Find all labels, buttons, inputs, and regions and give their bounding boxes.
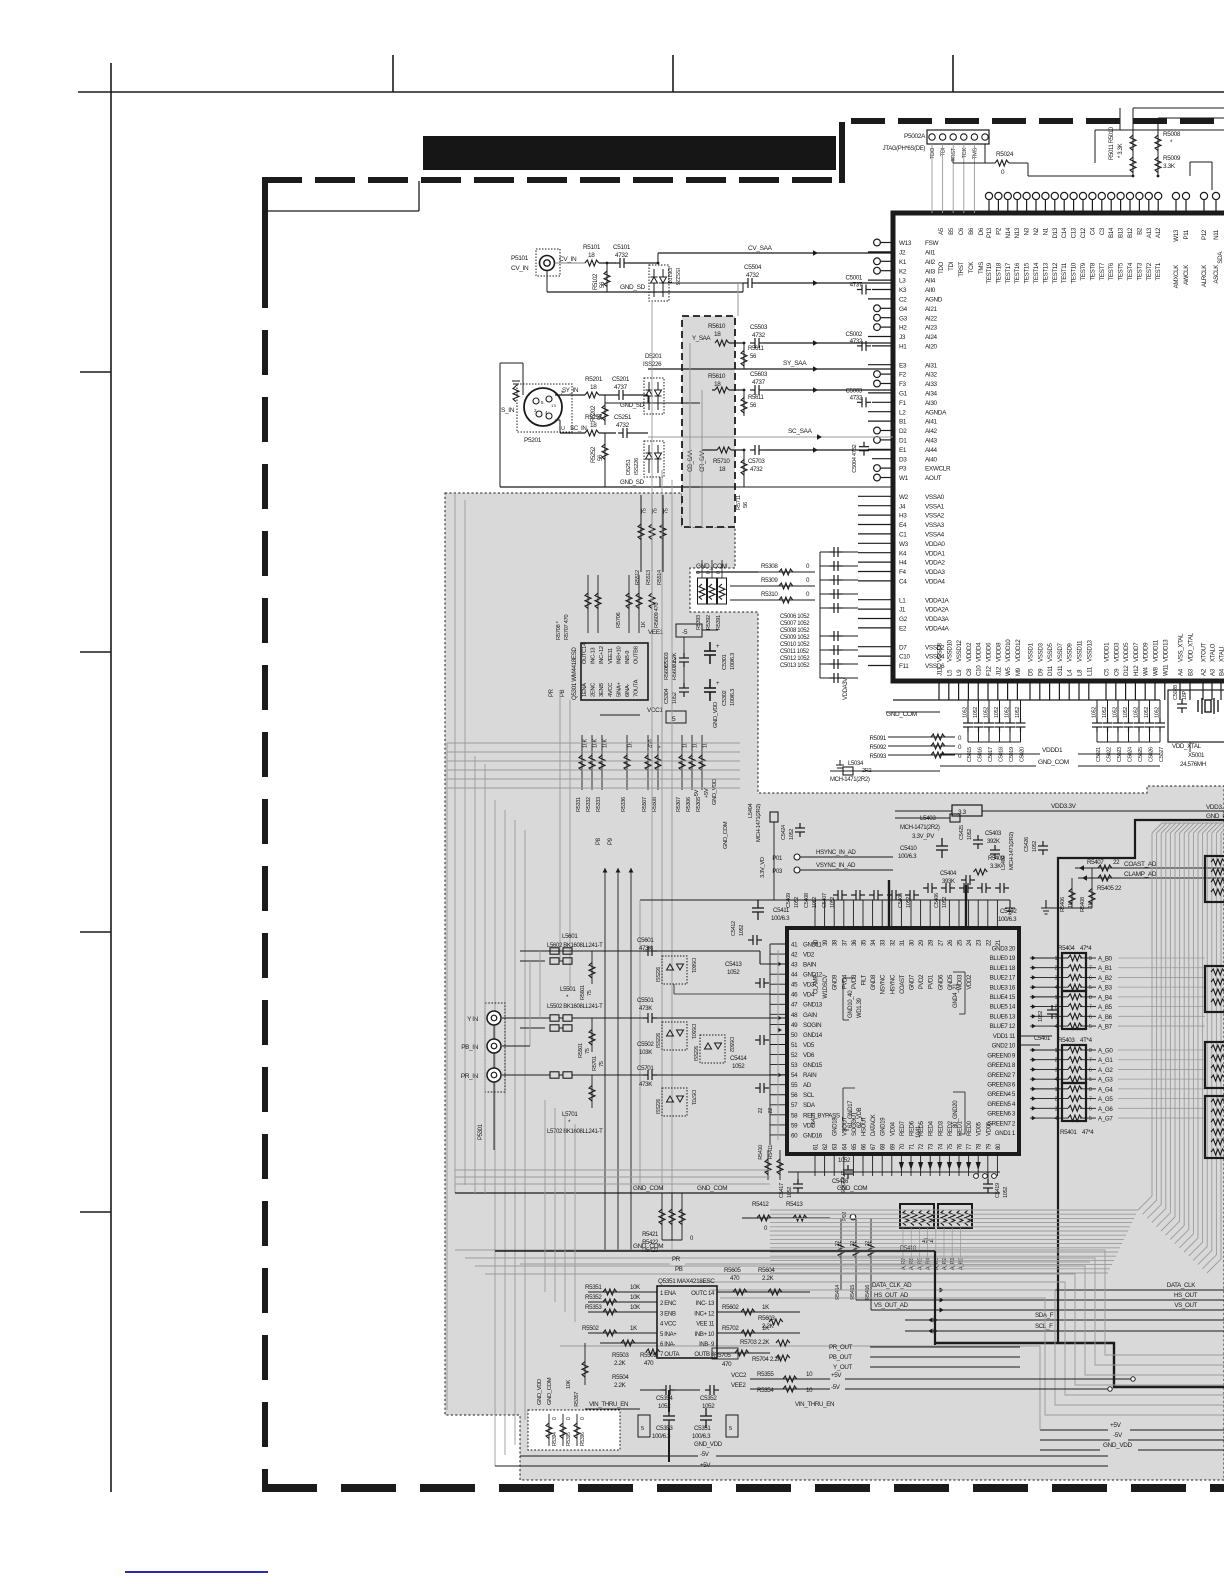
resistor R5008 [1157, 118, 1159, 176]
svg-text:XTOUT: XTOUT [1201, 642, 1208, 662]
svg-text:TEST4: TEST4 [1127, 262, 1134, 280]
svg-text:SCL_F: SCL_F [1035, 1323, 1053, 1330]
svg-text:TEST14: TEST14 [1033, 262, 1040, 284]
svg-text:ISS226: ISS226 [656, 1099, 662, 1114]
svg-text:VDDD7: VDDD7 [1133, 642, 1140, 662]
svg-text:R5391: R5391 [716, 615, 722, 630]
thick GND_C wire [1058, 820, 1224, 1343]
svg-text:C3: C3 [1099, 227, 1106, 235]
svg-text:PR: PR [549, 688, 555, 697]
svg-text:R5336: R5336 [621, 797, 627, 812]
svg-text:C5028: C5028 [1173, 685, 1179, 700]
svg-text:PB_OUT: PB_OUT [829, 1354, 852, 1361]
svg-text:VD05: VD05 [977, 1121, 983, 1136]
svg-text:GND2 10: GND2 10 [992, 1043, 1016, 1050]
svg-text:TEST19: TEST19 [986, 262, 993, 284]
svg-text:C5007 1052: C5007 1052 [780, 621, 810, 627]
svg-text:TDO: TDO [930, 147, 936, 159]
dashed sheet frame left edge [262, 177, 268, 263]
resistor R5310 [730, 599, 815, 601]
svg-text:69: 69 [890, 1143, 896, 1150]
svg-text:L1: L1 [899, 597, 906, 604]
svg-text:C5016: C5016 [978, 747, 984, 762]
svg-text:AWCLK: AWCLK [1183, 264, 1190, 285]
svg-text:SY_IN: SY_IN [562, 387, 578, 394]
svg-text:C5022: C5022 [1107, 747, 1113, 762]
svg-text:R5008: R5008 [1163, 131, 1181, 138]
svg-text:4732: 4732 [750, 466, 763, 473]
group A line (C channel) [520, 950, 760, 952]
svg-text:VSSD13: VSSD13 [1086, 639, 1093, 662]
svg-text:18: 18 [714, 331, 721, 338]
svg-text:TMS: TMS [978, 262, 985, 274]
svg-text:63: 63 [833, 1143, 839, 1150]
svg-text:A_B3: A_B3 [1098, 985, 1113, 992]
box 5 left [638, 1415, 650, 1437]
svg-text:VD04: VD04 [890, 1121, 896, 1136]
svg-text:INB-9: INB-9 [625, 651, 631, 664]
svg-text:CLAMP: CLAMP [814, 975, 820, 994]
resistor R5101 [585, 260, 599, 266]
svg-text:B2: B2 [1136, 227, 1143, 235]
svg-text:VSYNC_IN_AD: VSYNC_IN_AD [816, 862, 856, 869]
diode D5601 [662, 956, 687, 984]
U5001 bottom pin net names [937, 632, 1224, 662]
svg-text:SDA_F: SDA_F [1035, 1312, 1054, 1319]
resistor R5611 [743, 343, 745, 369]
svg-text:GND_SD: GND_SD [620, 284, 646, 291]
svg-text:INB- 9: INB- 9 [699, 1342, 715, 1348]
svg-text:K1: K1 [899, 259, 907, 266]
svg-text:VEE 11: VEE 11 [696, 1322, 715, 1328]
svg-text:L8: L8 [1077, 669, 1084, 676]
svg-text:VSSD7: VSSD7 [1057, 643, 1064, 662]
test point P02 [850, 1214, 856, 1220]
resistor R5091 [888, 736, 955, 738]
svg-text:VEE2: VEE2 [731, 1382, 746, 1389]
svg-text:TEST15: TEST15 [1024, 262, 1031, 284]
svg-text:80: 80 [996, 1143, 1002, 1150]
svg-text:R5414: R5414 [835, 1285, 841, 1300]
svg-text:TEST5: TEST5 [1118, 262, 1125, 280]
svg-text:1052: 1052 [830, 897, 836, 908]
net labels A_G0-A_G7 [1098, 1048, 1205, 1123]
svg-text:VDD2: VDD2 [967, 974, 973, 990]
svg-text:C5017: C5017 [988, 747, 994, 762]
left tick 1 [80, 371, 111, 373]
svg-text:W3: W3 [899, 541, 909, 548]
svg-text:-5V: -5V [700, 1451, 710, 1458]
data bus bundle verticals [1138, 833, 1221, 1273]
resistor R5024 [984, 144, 986, 163]
resistor R5351 [588, 1291, 657, 1293]
svg-text:59: 59 [791, 1122, 798, 1129]
svg-text:C5010 1052: C5010 1052 [780, 642, 810, 648]
svg-text:3.3: 3.3 [958, 809, 967, 816]
svg-text:56: 56 [600, 281, 606, 288]
svg-text:R5601: R5601 [580, 985, 586, 1000]
svg-text:AI30: AI30 [925, 400, 938, 407]
svg-text:1052: 1052 [672, 692, 678, 704]
resistor R5505 [646, 1349, 660, 1355]
svg-text:W11: W11 [1162, 664, 1169, 676]
svg-text:D6: D6 [978, 227, 985, 235]
svg-text:VD6: VD6 [803, 1052, 815, 1059]
svg-text:Y_SAA: Y_SAA [692, 335, 711, 342]
svg-text:R5251: R5251 [585, 414, 603, 421]
svg-text:VSSD3: VSSD3 [1037, 643, 1044, 662]
svg-text:S_IN: S_IN [501, 407, 515, 414]
svg-text:4737: 4737 [752, 379, 766, 386]
svg-text:VDDD5: VDDD5 [1123, 642, 1130, 662]
svg-text:34: 34 [871, 939, 877, 946]
IC video ADC body [787, 928, 1019, 1154]
top tick 1 [392, 55, 394, 92]
svg-text:E4: E4 [899, 522, 907, 529]
svg-text:B1: B1 [899, 419, 907, 426]
svg-text:VD2: VD2 [803, 951, 815, 958]
svg-text:M9: M9 [1015, 667, 1022, 676]
svg-text:R5505: R5505 [640, 1352, 657, 1359]
svg-text:A_B0: A_B0 [1098, 956, 1113, 963]
svg-text:R5307: R5307 [676, 797, 682, 812]
resistor R5201 [585, 392, 599, 398]
svg-text:HSYNC: HSYNC [890, 974, 896, 994]
svg-text:P2: P2 [995, 227, 1002, 235]
svg-text:ISS226: ISS226 [656, 1033, 662, 1048]
svg-text:R5394: R5394 [552, 1432, 558, 1446]
svg-text:C5019: C5019 [1009, 747, 1015, 762]
resistor R5601 [591, 951, 593, 984]
net CV_SAA [658, 252, 893, 254]
svg-text:L5404: L5404 [748, 803, 754, 818]
U5001 top pin id labels [938, 227, 1220, 242]
test point P03 [794, 867, 800, 873]
svg-text:4732: 4732 [746, 272, 760, 279]
svg-text:PVD1: PVD1 [929, 974, 935, 989]
U5001 top pin net names [938, 251, 1224, 289]
svg-text:R5101: R5101 [583, 244, 601, 251]
svg-text:C5406: C5406 [934, 893, 940, 908]
svg-text:22: 22 [986, 939, 992, 946]
resistor R5408 [1091, 868, 1093, 908]
svg-text:VDDA2: VDDA2 [925, 560, 945, 567]
svg-text:1052: 1052 [1038, 1011, 1044, 1022]
svg-text:A_R2: A_R2 [942, 1258, 948, 1270]
svg-text:RED6: RED6 [910, 1120, 916, 1136]
inductor L5501 [550, 1015, 572, 1021]
C5004 decoupling cap [859, 442, 869, 456]
svg-text:J1: J1 [899, 607, 906, 614]
svg-text:PR_OUT: PR_OUT [829, 1344, 853, 1351]
svg-text:J2: J2 [899, 250, 906, 257]
svg-text:R5416: R5416 [865, 1285, 871, 1300]
svg-text:MCH-1471(2R2): MCH-1471(2R2) [830, 777, 870, 783]
top tick 3 [952, 55, 954, 92]
svg-text:1052: 1052 [794, 897, 800, 908]
svg-text:VDDD2: VDDD2 [966, 642, 973, 662]
svg-text:RED4: RED4 [929, 1120, 935, 1136]
svg-text:R5611: R5611 [748, 346, 764, 352]
svg-text:58: 58 [791, 1112, 798, 1119]
svg-text:VDDD8: VDDD8 [995, 642, 1002, 662]
svg-text:39: 39 [823, 939, 829, 946]
svg-text:R5512: R5512 [635, 570, 641, 585]
svg-text:R5357: R5357 [574, 1392, 580, 1407]
svg-text:C5002: C5002 [846, 331, 863, 338]
bottom rail extensions [495, 1465, 1108, 1467]
svg-text:P8: P8 [596, 837, 602, 845]
svg-text:68: 68 [881, 1143, 887, 1150]
svg-text:R5306: R5306 [686, 797, 692, 812]
svg-text:100/6.3: 100/6.3 [998, 916, 1017, 923]
svg-text:3.3K: 3.3K [1163, 163, 1176, 170]
svg-text:3.3V_VD: 3.3V_VD [760, 857, 766, 878]
svg-text:5INA+: 5INA+ [616, 682, 622, 697]
svg-text:GAIN: GAIN [803, 1012, 817, 1019]
bottom pin down arrows [899, 1162, 981, 1170]
svg-text:C10: C10 [899, 654, 910, 661]
svg-text:100/6.3: 100/6.3 [692, 1433, 711, 1440]
svg-text:R5024: R5024 [996, 151, 1014, 158]
svg-text:R5410: R5410 [758, 1145, 764, 1160]
svg-text:R5092: R5092 [870, 744, 887, 751]
svg-text:-5: -5 [682, 629, 688, 636]
svg-text:* 3.3K: * 3.3K [1118, 143, 1124, 158]
svg-text:10K: 10K [630, 1294, 641, 1301]
resistor R5410 R5411 [767, 1150, 769, 1180]
gnd sym + tie [1046, 907, 1092, 909]
svg-text:E3: E3 [899, 362, 907, 369]
resistor R5405 [1098, 875, 1112, 881]
svg-text:R5605: R5605 [724, 1267, 741, 1274]
U5001 top pin stubs and pads [985, 192, 1219, 213]
svg-text:C5003: C5003 [846, 387, 863, 394]
svg-text:BLUE2 17: BLUE2 17 [990, 975, 1016, 982]
svg-text:R5310: R5310 [761, 591, 778, 598]
svg-text:C5001: C5001 [846, 275, 863, 282]
svg-text:1052: 1052 [739, 925, 745, 936]
svg-text:1052: 1052 [732, 1063, 745, 1070]
svg-text:G2: G2 [899, 616, 908, 623]
svg-text:G11: G11 [1057, 665, 1064, 676]
C5001 decoupling cap [857, 285, 871, 295]
svg-text:VDDD9: VDDD9 [1143, 642, 1150, 662]
svg-text:VDDD1: VDDD1 [1104, 642, 1111, 662]
svg-text:1052: 1052 [1005, 707, 1011, 718]
svg-text:ISS226: ISS226 [656, 967, 662, 982]
svg-text:4732: 4732 [752, 332, 766, 339]
svg-text:VDD3.3V: VDD3.3V [1051, 803, 1077, 810]
svg-text:J12: J12 [995, 666, 1002, 676]
svg-text:PB: PB [560, 689, 566, 697]
svg-text:46: 46 [791, 992, 798, 999]
svg-text:P5002A: P5002A [904, 133, 926, 140]
svg-text:MCH-1471(2R2): MCH-1471(2R2) [756, 804, 762, 842]
svg-text:R5392: R5392 [706, 615, 712, 630]
U5001 bottom pin id labels [937, 664, 1224, 676]
svg-text:GREEN0 9: GREEN0 9 [987, 1052, 1016, 1059]
bus bundle top bends [1152, 823, 1224, 833]
svg-text:PR: PR [672, 1256, 681, 1263]
video IC top pin names [814, 974, 974, 999]
svg-text:TEST6: TEST6 [1108, 262, 1115, 280]
resistor R5603 [769, 1319, 783, 1325]
svg-text:D5502: D5502 [728, 1037, 734, 1052]
GND_COM rail [455, 1192, 1000, 1194]
svg-text:5: 5 [641, 1426, 644, 1432]
svg-text:470: 470 [722, 1361, 732, 1368]
long bus wires [651, 300, 653, 950]
resistor R5501 [591, 1018, 593, 1052]
svg-text:A_G2: A_G2 [1098, 1067, 1113, 1074]
svg-text:R5501: R5501 [578, 1043, 584, 1058]
svg-text:XTALO: XTALO [1210, 643, 1217, 662]
connector P5002A JTAG [927, 130, 989, 144]
svg-text:A12: A12 [1155, 227, 1162, 238]
svg-text:49: 49 [791, 1022, 798, 1029]
svg-text:B4: B4 [1219, 668, 1224, 676]
svg-text:HS_OUT: HS_OUT [1174, 1292, 1198, 1299]
svg-text:P5301: P5301 [478, 1123, 484, 1140]
svg-text:24.576MH: 24.576MH [1180, 761, 1206, 768]
svg-text:41: 41 [791, 941, 798, 948]
svg-text:GND_COM: GND_COM [723, 821, 729, 849]
svg-text:AOUT: AOUT [925, 475, 942, 482]
svg-text:10K: 10K [630, 1304, 641, 1311]
resistor R5503 [600, 1342, 657, 1344]
svg-text:FILT: FILT [862, 974, 868, 985]
bus exit horizontals bottom [770, 1210, 1138, 1273]
svg-text:W13: W13 [899, 240, 912, 247]
diode D5502 [700, 1035, 725, 1063]
resistor R5702 [717, 1332, 800, 1334]
svg-text:67: 67 [871, 1143, 877, 1150]
svg-text:R5333: R5333 [596, 797, 602, 812]
svg-text:1052: 1052 [973, 707, 979, 718]
svg-text:+5V: +5V [1110, 1422, 1122, 1429]
svg-text:GND19: GND19 [881, 1117, 887, 1136]
svg-text:R5405 22: R5405 22 [1097, 885, 1122, 892]
R-pack R5418 47*4 [900, 1204, 934, 1228]
svg-text:2ENC: 2ENC [591, 683, 597, 697]
svg-text:TEST13: TEST13 [1042, 262, 1049, 284]
svg-text:VDDD13: VDDD13 [1162, 639, 1169, 662]
svg-text:4VCC: 4VCC [608, 683, 614, 697]
svg-text:C5008 1052: C5008 1052 [780, 628, 810, 634]
svg-text:C5020: C5020 [1020, 747, 1026, 762]
svg-text:27: 27 [938, 939, 944, 946]
svg-text:18P: 18P [1182, 690, 1188, 700]
svg-text:MCH-1471(2R2): MCH-1471(2R2) [900, 825, 940, 831]
svg-text:C5503: C5503 [750, 324, 768, 331]
jtag pullup feed wires [1119, 108, 1121, 130]
svg-text:R5412: R5412 [752, 1201, 769, 1208]
svg-text:A_B2: A_B2 [1098, 975, 1113, 982]
svg-text:GREEN3 6: GREEN3 6 [987, 1081, 1016, 1088]
svg-text:C5404: C5404 [940, 871, 957, 877]
svg-text:R5332: R5332 [586, 797, 592, 812]
capacitor C5603 [750, 385, 764, 395]
svg-text:43: 43 [791, 962, 798, 969]
svg-text:TMS: TMS [972, 148, 978, 160]
svg-text:D5: D5 [1028, 668, 1035, 676]
U5001 bottom pin stubs [939, 681, 1221, 700]
svg-text:PB: PB [675, 1266, 683, 1273]
svg-text:D5251: D5251 [626, 460, 632, 475]
svg-text:SDA: SDA [803, 1102, 816, 1109]
svg-text:W5: W5 [1005, 667, 1012, 676]
svg-text:GND14: GND14 [803, 1032, 823, 1039]
svg-text:1052: 1052 [1015, 707, 1021, 718]
power bus over IC [640, 899, 1010, 901]
svg-text:71: 71 [910, 1143, 916, 1150]
svg-text:J11: J11 [937, 667, 944, 676]
svg-text:55: 55 [791, 1082, 798, 1089]
svg-text:C5: C5 [1104, 668, 1111, 676]
svg-text:R5507: R5507 [642, 797, 648, 812]
net HS_OUT_AD [856, 1299, 1224, 1301]
svg-text:N13: N13 [1014, 227, 1021, 238]
svg-text:VSSA1: VSSA1 [925, 503, 945, 510]
svg-text:4737: 4737 [614, 384, 628, 391]
svg-text:0: 0 [696, 571, 702, 574]
svg-text:GND18: GND18 [833, 1117, 839, 1136]
svg-text:74: 74 [938, 1143, 944, 1150]
svg-text:D5601: D5601 [690, 958, 696, 973]
svg-text:R5701: R5701 [592, 1056, 598, 1071]
svg-text:R5706: R5706 [616, 613, 622, 628]
IC U5001 DV decoder body [893, 213, 1224, 681]
title block outline [266, 210, 419, 212]
svg-text:L3: L3 [899, 278, 906, 285]
capacitor C5201 [614, 390, 628, 400]
svg-text:1052: 1052 [1113, 707, 1119, 718]
svg-text:W8: W8 [1153, 667, 1160, 676]
dashed sheet frame bottom edge [262, 1484, 1224, 1492]
video IC bottom pin stubs [814, 1111, 1002, 1176]
svg-text:AI24: AI24 [925, 334, 938, 341]
svg-text:61: 61 [814, 1143, 820, 1150]
svg-text:C5703: C5703 [748, 458, 765, 465]
svg-text:0: 0 [706, 571, 712, 574]
svg-text:B13: B13 [1118, 227, 1125, 238]
extra caps above video ADC [920, 883, 1010, 893]
net SDA_F [905, 1319, 1224, 1321]
svg-text:C5417: C5417 [779, 1183, 785, 1198]
svg-text:B14: B14 [1108, 227, 1115, 238]
svg-text:51: 51 [791, 1042, 798, 1049]
svg-text:BLUE3 16: BLUE3 16 [990, 984, 1016, 991]
svg-text:44: 44 [791, 972, 798, 979]
svg-text:VDD1 11: VDD1 11 [993, 1033, 1016, 1040]
svg-text:75: 75 [585, 1048, 591, 1054]
svg-text:60: 60 [791, 1132, 798, 1139]
svg-text:GND13: GND13 [803, 1002, 823, 1009]
left tick 4 [80, 1211, 111, 1213]
svg-text:D3: D3 [899, 456, 907, 463]
svg-text:TEST7: TEST7 [1099, 262, 1106, 280]
svg-text:392K: 392K [987, 839, 1000, 845]
svg-text:L5501: L5501 [560, 986, 576, 993]
svg-text:COAST: COAST [900, 974, 906, 994]
svg-text:TEST17: TEST17 [1005, 262, 1012, 284]
svg-text:AI33: AI33 [925, 381, 938, 388]
svg-text:2.2K: 2.2K [614, 1382, 627, 1389]
svg-text:22: 22 [768, 1108, 774, 1114]
capacitor C5351 [700, 1408, 712, 1428]
svg-text:P12: P12 [1201, 229, 1208, 240]
